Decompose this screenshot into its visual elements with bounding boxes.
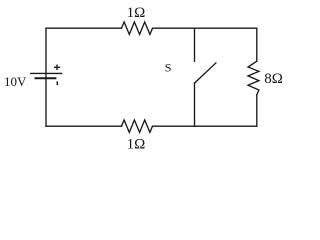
svg-text:8Ω: 8Ω	[264, 71, 283, 87]
wire right lower: R3 down to bottom-right corner	[256, 95, 258, 126]
wire right upper: corner down to R3	[256, 28, 258, 61]
wire top-left: battery to R1	[46, 27, 122, 29]
wire bottom-middle: switch branch to R2	[153, 125, 195, 127]
svg-text:1Ω: 1Ω	[127, 137, 146, 153]
svg-text:S: S	[165, 61, 172, 75]
wire top-right: switch node to top-right corner	[195, 27, 257, 29]
switch S blade (open)	[195, 63, 216, 83]
wire top-middle: R1 to switch node	[153, 27, 195, 29]
resistor R3 8Ω (right)	[248, 61, 259, 95]
wire left: bottom-left corner up through battery to top-left corner	[45, 28, 47, 126]
svg-text:10V: 10V	[4, 74, 27, 89]
svg-text:1Ω: 1Ω	[127, 5, 146, 21]
switch S top lead	[194, 28, 196, 61]
resistor R2 1Ω (bottom)	[122, 120, 153, 132]
battery V1 negative plate (short, thick)	[35, 77, 57, 79]
battery minus mark (vertical tick)	[56, 81, 58, 85]
switch S bottom lead	[194, 83, 196, 126]
wire bottom-left: R2 to bottom-left corner	[46, 125, 122, 127]
wire bottom-right: corner to switch branch	[195, 125, 257, 127]
battery V1 positive plate (long)	[30, 72, 62, 74]
resistor R1 1Ω (top)	[122, 22, 153, 34]
battery plus sign	[54, 65, 60, 71]
